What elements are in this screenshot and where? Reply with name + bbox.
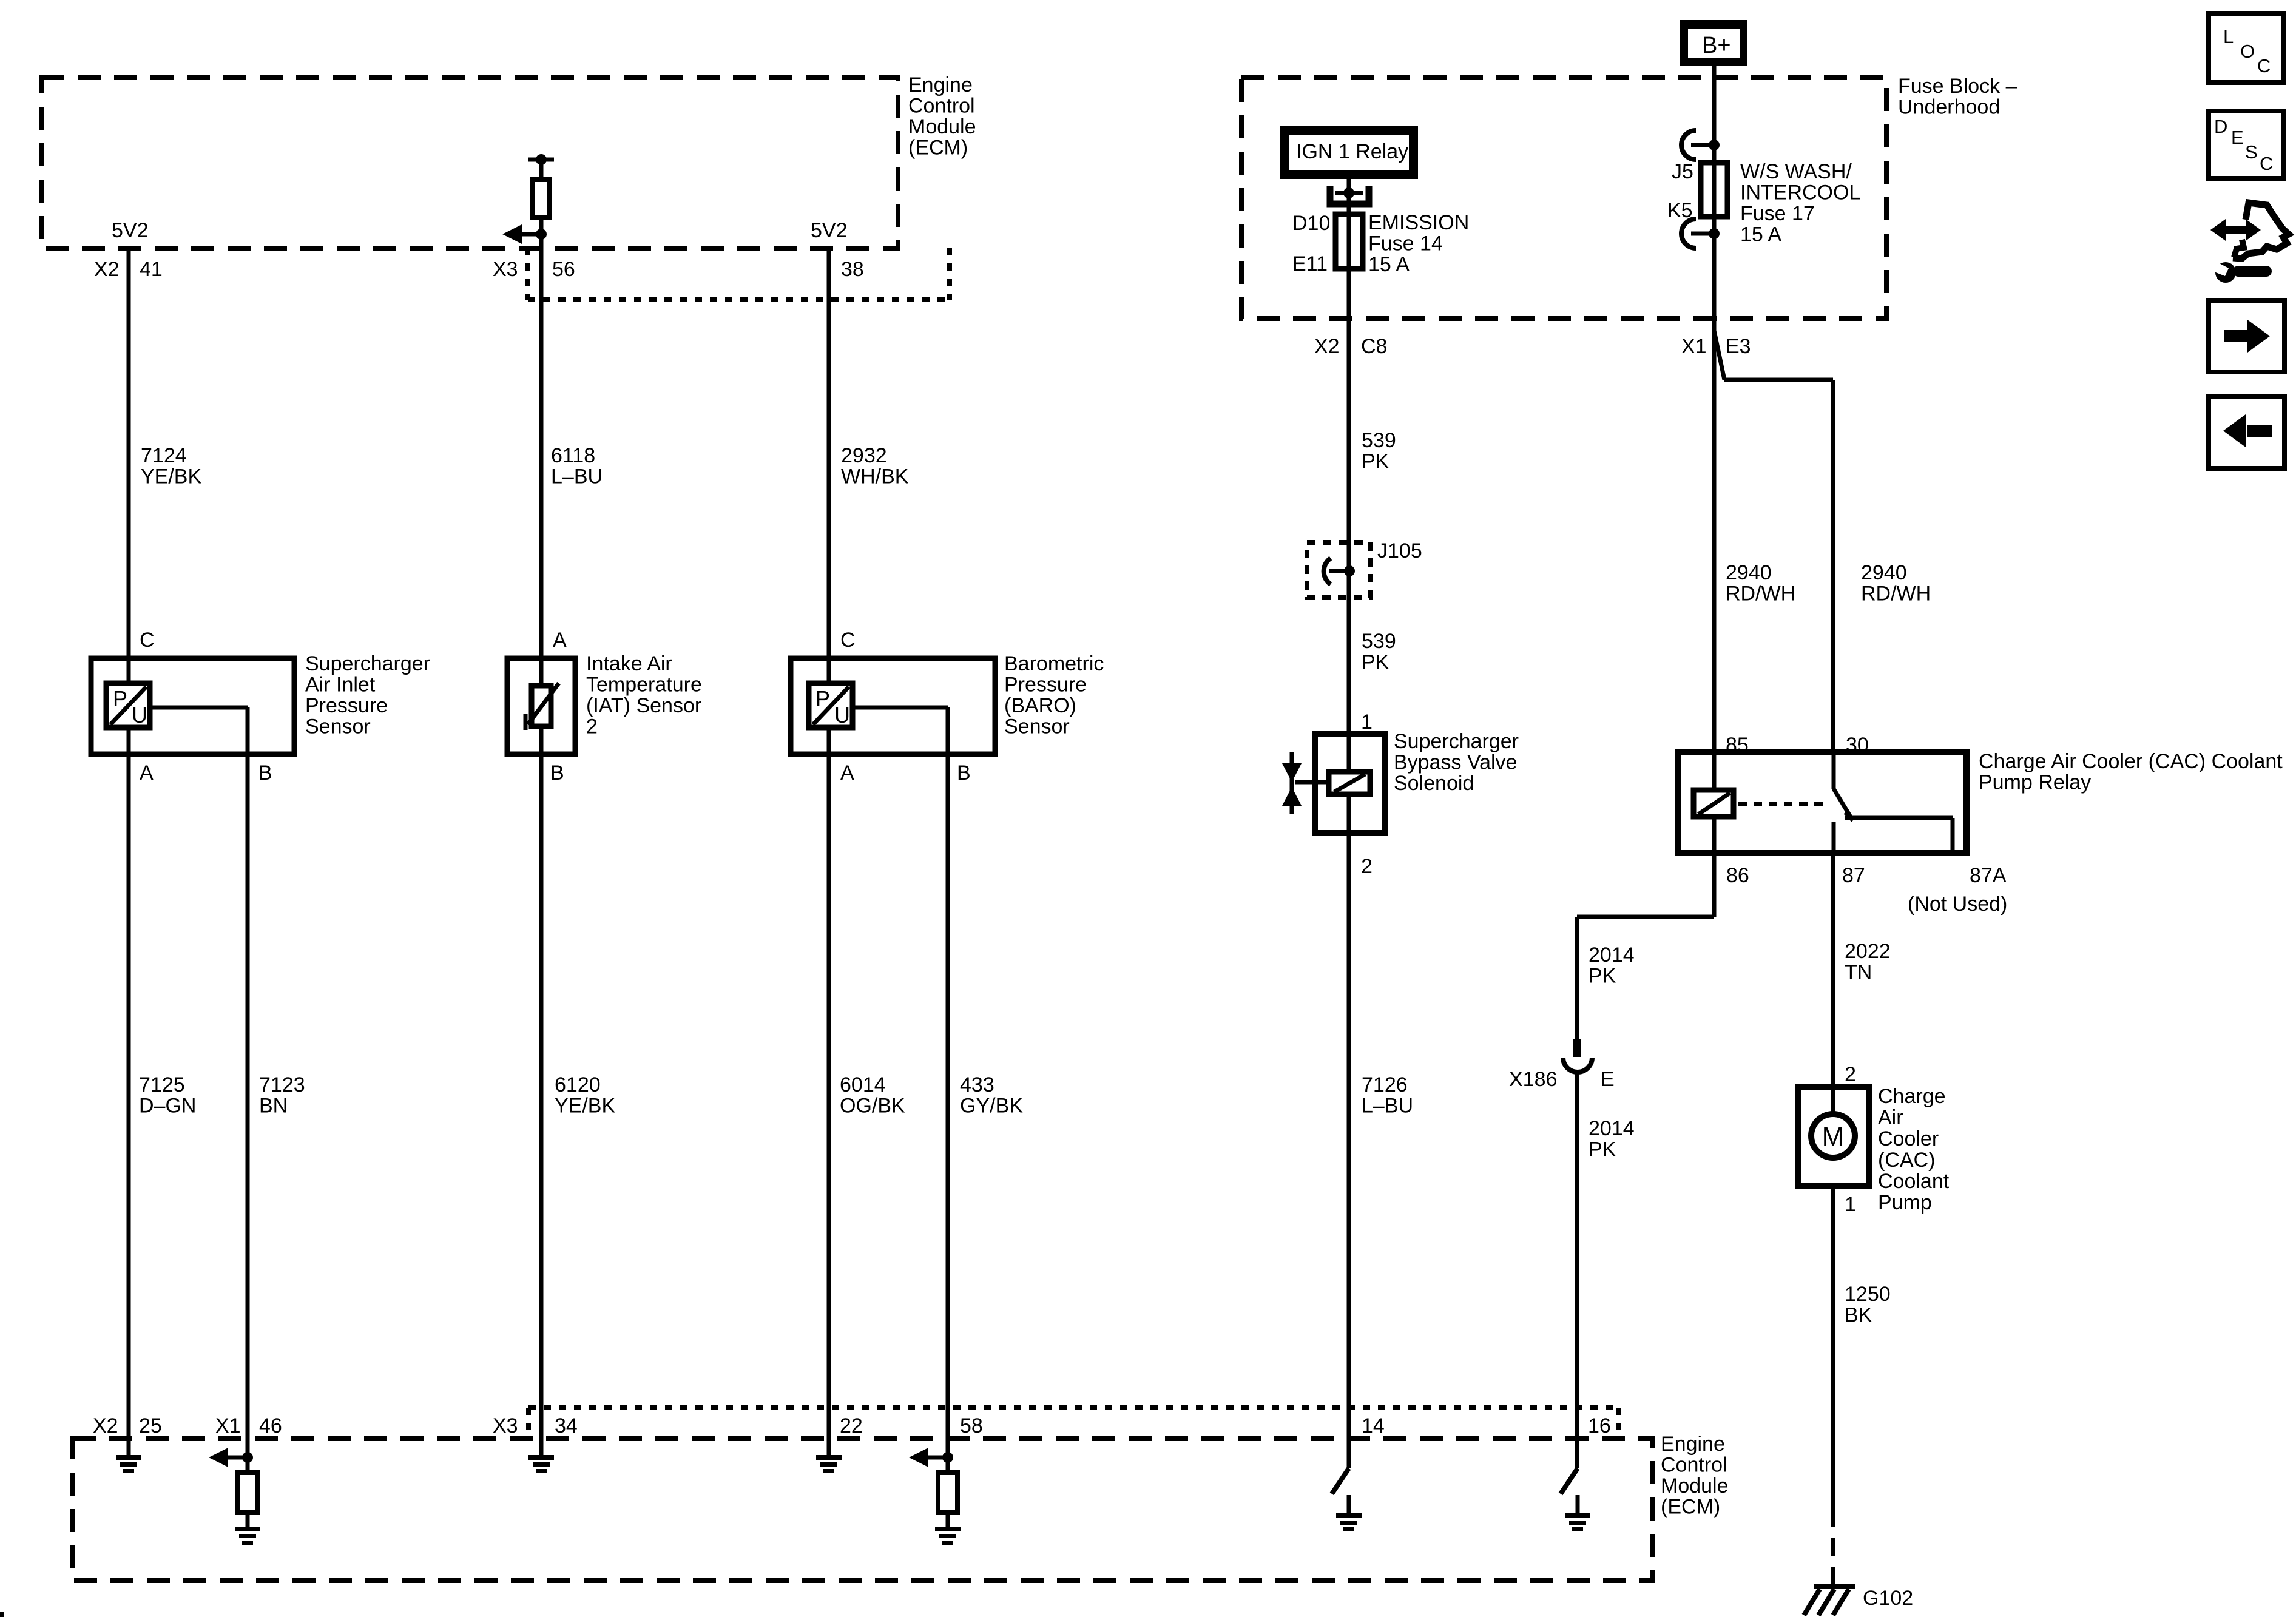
svg-text:C: C [2260, 153, 2273, 174]
motor: Charge Air Cooler (CAC) Coolant Pump box [1798, 1087, 1869, 1186]
connector X186 inline [1573, 1039, 1581, 1057]
svg-text:25: 25 [139, 1414, 162, 1437]
arrow and junction at pin 58 [942, 1452, 953, 1463]
ground: ECM internal at pin 34 [528, 1455, 554, 1460]
switch: ECM low-side driver at pin 16 [1561, 1468, 1578, 1494]
relay: Charge Air Cooler (CAC) Coolant Pump Relay box [1678, 752, 1967, 853]
wire 7125 D-GN: sensor pin A to ECM X2-25 [127, 727, 131, 1455]
svg-text:D10: D10 [1292, 212, 1330, 235]
wire: BARO internal to pin B [853, 706, 948, 710]
svg-text:U: U [834, 703, 850, 727]
switch: ECM low-side driver at pin 14 [1332, 1468, 1349, 1494]
page artifact dot (bottom-left) [0, 1612, 4, 1617]
svg-text:Pump: Pump [1878, 1191, 1932, 1214]
svg-text:D–GN: D–GN [139, 1095, 196, 1118]
svg-text:D: D [2214, 116, 2227, 137]
ground: ECM internal at pin 14 [1347, 1495, 1351, 1513]
connector X3 dotted box (bottom) [528, 1405, 1618, 1410]
svg-text:L–BU: L–BU [1362, 1095, 1413, 1118]
svg-text:6120: 6120 [555, 1073, 601, 1096]
svg-text:O: O [2240, 41, 2255, 62]
svg-text:X1: X1 [1681, 335, 1707, 358]
svg-text:Supercharger: Supercharger [305, 652, 430, 675]
svg-text:Temperature: Temperature [586, 673, 702, 697]
svg-text:85: 85 [1726, 734, 1749, 757]
svg-text:X1: X1 [215, 1414, 241, 1437]
svg-text:Cooler: Cooler [1878, 1127, 1939, 1150]
ground G102 chassis symbol [1814, 1584, 1855, 1589]
wire 6118 L-BU: ECM X3-56 to IAT pin A [539, 248, 544, 686]
svg-text:YE/BK: YE/BK [555, 1095, 615, 1118]
svg-text:Fuse 14: Fuse 14 [1368, 232, 1443, 255]
wire: sensor 1 internal to pin B [150, 706, 248, 710]
svg-text:433: 433 [960, 1073, 994, 1096]
wire 2932 WH/BK: ECM 38 to BARO pin C [827, 248, 831, 683]
svg-text:C: C [2257, 55, 2271, 76]
svg-text:B: B [957, 761, 971, 785]
wire 2940 RD/WH branch to relay pin 30 [1714, 331, 1724, 380]
svg-text:U: U [132, 703, 147, 727]
wire 7124 YE/BK: ECM X2-41 to sensor pin C [127, 248, 131, 683]
svg-text:2014: 2014 [1589, 944, 1635, 967]
svg-text:(CAC): (CAC) [1878, 1149, 1935, 1172]
svg-text:15 A: 15 A [1740, 223, 1781, 246]
ground: ECM internal at pin 16 [1576, 1495, 1580, 1513]
svg-text:1: 1 [1361, 711, 1373, 734]
svg-text:RD/WH: RD/WH [1726, 582, 1795, 606]
svg-text:X2: X2 [1314, 335, 1340, 358]
svg-text:Charge Air Cooler (CAC) Coolan: Charge Air Cooler (CAC) Coolant [1979, 750, 2283, 773]
svg-text:Barometric: Barometric [1004, 652, 1104, 675]
svg-text:X3: X3 [493, 258, 518, 281]
fuse terminal J5 (fuse 17 top) [1709, 140, 1720, 150]
svg-text:86: 86 [1726, 864, 1749, 887]
svg-text:K5: K5 [1667, 199, 1693, 222]
svg-text:W/S WASH/: W/S WASH/ [1740, 160, 1852, 183]
svg-text:J105: J105 [1377, 539, 1422, 562]
svg-text:P: P [113, 686, 127, 711]
svg-text:22: 22 [840, 1414, 863, 1437]
ground: ECM internal at pin 58 [935, 1527, 961, 1531]
svg-text:Bypass Valve: Bypass Valve [1394, 751, 1517, 774]
svg-text:Module: Module [1661, 1474, 1729, 1497]
svg-text:(Not Used): (Not Used) [1908, 893, 2007, 916]
relay coil-to-armature dashed link [1738, 802, 1826, 806]
svg-text:P: P [815, 686, 830, 711]
svg-text:56: 56 [552, 258, 575, 281]
svg-text:INTERCOOL: INTERCOOL [1740, 181, 1860, 204]
fuse terminal K5 (fuse 17 bottom) [1709, 228, 1720, 239]
fuse holder terminal (fuse 14 top) [1343, 187, 1354, 198]
svg-text:A: A [840, 761, 854, 785]
resistor: ECM internal pull-up for IAT [528, 158, 554, 162]
svg-text:(IAT) Sensor: (IAT) Sensor [586, 694, 701, 717]
svg-text:2014: 2014 [1589, 1117, 1635, 1140]
thermistor symbol (IAT) [532, 686, 551, 726]
svg-text:38: 38 [841, 258, 864, 281]
svg-text:GY/BK: GY/BK [960, 1095, 1023, 1118]
svg-text:7126: 7126 [1362, 1073, 1408, 1096]
svg-text:B+: B+ [1702, 33, 1731, 58]
svg-text:C8: C8 [1361, 335, 1387, 358]
resistor: ECM internal at pin 58 [938, 1473, 957, 1513]
svg-text:X2: X2 [93, 1414, 118, 1437]
svg-text:2: 2 [1845, 1063, 1856, 1086]
svg-text:E: E [1601, 1068, 1615, 1091]
Fuse Block - Underhood dashed box [1241, 78, 1886, 319]
relay coil symbol [1693, 790, 1734, 817]
relay IGN 1 Relay box [1280, 126, 1418, 179]
svg-text:Module: Module [908, 115, 976, 138]
wire 2014 PK: relay 86 to X186 [1712, 853, 1717, 917]
svg-text:(ECM): (ECM) [1661, 1496, 1720, 1519]
wire B+ to W/S WASH fuse and X1-E3 [1712, 66, 1717, 752]
svg-text:46: 46 [259, 1414, 282, 1437]
svg-text:L: L [2223, 26, 2234, 47]
wire 6014 OG/BK: BARO pin A to ECM 22 [827, 727, 831, 1455]
P/U pressure transducer symbol (BARO) [809, 683, 853, 727]
svg-text:Intake Air: Intake Air [586, 652, 672, 675]
svg-text:2940: 2940 [1861, 561, 1907, 584]
valve symbol (solenoid) [1290, 752, 1294, 814]
svg-text:7123: 7123 [259, 1073, 305, 1096]
svg-text:B: B [550, 761, 564, 785]
svg-text:BN: BN [259, 1095, 288, 1118]
ground: ECM internal at pin 46 [235, 1527, 260, 1531]
svg-text:30: 30 [1846, 734, 1869, 757]
svg-text:34: 34 [555, 1414, 578, 1437]
sensor: Intake Air Temperature (IAT) Sensor 2 box [507, 658, 575, 754]
svg-text:PK: PK [1589, 1138, 1616, 1161]
fuse W/S WASH/INTERCOOL Fuse 17 15 A [1701, 163, 1727, 217]
svg-text:S: S [2245, 141, 2258, 163]
svg-text:BK: BK [1845, 1304, 1872, 1327]
svg-text:IGN 1 Relay: IGN 1 Relay [1296, 140, 1408, 163]
svg-text:E: E [2231, 127, 2244, 148]
svg-text:Control: Control [1661, 1454, 1727, 1477]
svg-text:YE/BK: YE/BK [141, 465, 201, 488]
power feed B+ box [1680, 20, 1747, 66]
svg-text:1250: 1250 [1845, 1283, 1891, 1306]
svg-text:(ECM): (ECM) [908, 137, 968, 160]
svg-text:Pressure: Pressure [1004, 673, 1087, 697]
svg-text:Charge: Charge [1878, 1085, 1946, 1108]
svg-text:87: 87 [1842, 864, 1865, 887]
svg-text:E11: E11 [1292, 252, 1328, 275]
wire 1250 BK: pump pin 1 to G102 [1831, 1186, 1835, 1509]
solenoid: Supercharger Bypass Valve Solenoid box [1315, 734, 1385, 833]
svg-text:41: 41 [140, 258, 163, 281]
splice J105 dashed box [1307, 542, 1370, 598]
svg-text:6118: 6118 [551, 444, 595, 467]
svg-text:PK: PK [1589, 965, 1616, 988]
svg-text:58: 58 [960, 1414, 983, 1437]
P/U pressure transducer symbol (sensor 1) [106, 683, 150, 727]
connector X3 dotted box (top) [525, 248, 530, 300]
svg-text:J5: J5 [1672, 160, 1693, 183]
svg-text:Fuse Block –: Fuse Block – [1898, 75, 2017, 98]
svg-text:M: M [1822, 1122, 1845, 1152]
svg-text:RD/WH: RD/WH [1861, 582, 1931, 606]
svg-text:Supercharger: Supercharger [1394, 730, 1519, 753]
svg-text:Air: Air [1878, 1106, 1903, 1129]
svg-text:EMISSION: EMISSION [1368, 211, 1469, 234]
svg-text:Coolant: Coolant [1878, 1170, 1950, 1193]
svg-text:L–BU: L–BU [551, 465, 603, 488]
svg-text:Air Inlet: Air Inlet [305, 673, 376, 697]
svg-text:E3: E3 [1726, 335, 1751, 358]
wire 6120 YE/BK: IAT pin B to ECM X3-34 [539, 726, 544, 1455]
svg-text:16: 16 [1588, 1414, 1611, 1437]
svg-text:6014: 6014 [840, 1073, 886, 1096]
svg-text:X3: X3 [493, 1414, 518, 1437]
icon: DESC box [2209, 111, 2283, 178]
ECM module box (top, dashed) [41, 78, 898, 248]
svg-text:WH/BK: WH/BK [841, 465, 909, 488]
svg-text:OG/BK: OG/BK [840, 1095, 905, 1118]
svg-text:C: C [840, 629, 856, 652]
wire 2022 TN: relay 87 to pump pin 2 [1831, 853, 1835, 1115]
solenoid coil symbol [1329, 772, 1370, 794]
svg-text:7124: 7124 [141, 444, 187, 467]
icon: forward arrow box [2209, 300, 2284, 372]
svg-text:Solenoid: Solenoid [1394, 772, 1474, 795]
svg-text:87A: 87A [1970, 864, 2007, 887]
wire 433 GY/BK: BARO pin B to ECM 58 [946, 754, 950, 1473]
svg-text:Pump Relay: Pump Relay [1979, 771, 2091, 794]
svg-text:2022: 2022 [1845, 940, 1891, 963]
svg-text:2: 2 [1361, 855, 1373, 878]
svg-text:Pressure: Pressure [305, 694, 388, 717]
wire 2014 PK: X186 to ECM 16 [1575, 1072, 1579, 1468]
resistor: ECM internal at pin 46 [238, 1473, 257, 1513]
icon: LOC box [2209, 13, 2283, 83]
icon: wrench with double arrow [2215, 226, 2252, 234]
svg-text:Engine: Engine [1661, 1433, 1725, 1456]
icon: back arrow box [2209, 397, 2284, 468]
splice J105 terminal [1344, 565, 1355, 576]
svg-text:TN: TN [1845, 961, 1872, 984]
svg-text:7125: 7125 [139, 1073, 185, 1096]
sensor: Barometric Pressure (BARO) Sensor box [791, 658, 995, 754]
svg-text:2932: 2932 [841, 444, 887, 467]
fuse EMISSION Fuse 14 15 A [1335, 214, 1363, 269]
sensor: Supercharger Air Inlet Pressure Sensor box [91, 658, 294, 754]
svg-text:X186: X186 [1509, 1068, 1557, 1091]
svg-text:14: 14 [1362, 1414, 1385, 1437]
relay armature switch 30 to 87 [1832, 752, 1836, 789]
svg-text:15 A: 15 A [1368, 253, 1410, 276]
svg-text:2: 2 [586, 715, 598, 738]
svg-text:A: A [140, 761, 154, 785]
svg-text:539: 539 [1362, 429, 1396, 452]
svg-text:5V2: 5V2 [811, 219, 848, 242]
wire 539 PK: IGN 1 Relay to solenoid pin 1 [1347, 179, 1351, 772]
svg-text:A: A [553, 629, 567, 652]
svg-text:PK: PK [1362, 450, 1389, 473]
arrow: signal into ECM at pin 56 [536, 229, 547, 240]
svg-text:B: B [258, 761, 272, 785]
svg-text:PK: PK [1362, 651, 1389, 674]
svg-text:Engine: Engine [908, 73, 973, 96]
arrow and junction at pin 46 [242, 1452, 253, 1463]
svg-text:Fuse 17: Fuse 17 [1740, 202, 1815, 225]
svg-text:Control: Control [908, 95, 975, 118]
svg-text:(BARO): (BARO) [1004, 694, 1076, 717]
svg-text:Sensor: Sensor [305, 715, 371, 738]
ground: ECM internal at pin 25 [116, 1455, 141, 1460]
wire 7123 BN: sensor pin B to ECM X1-46 [246, 754, 250, 1473]
svg-text:G102: G102 [1863, 1587, 1913, 1610]
motor M symbol [1811, 1114, 1855, 1158]
svg-text:C: C [140, 629, 155, 652]
svg-text:539: 539 [1362, 630, 1396, 653]
svg-text:X2: X2 [94, 258, 120, 281]
wire: relay pin 85 through coil to pin 86 [1712, 752, 1717, 791]
ground: ECM internal at pin 22 [816, 1455, 842, 1460]
ECM module box (bottom, dashed) [73, 1439, 1652, 1581]
svg-text:Sensor: Sensor [1004, 715, 1070, 738]
svg-text:1: 1 [1845, 1193, 1856, 1216]
svg-text:5V2: 5V2 [112, 219, 149, 242]
svg-text:2940: 2940 [1726, 561, 1772, 584]
wire 7126 L-BU: solenoid pin 2 to ECM 14 [1347, 794, 1351, 1468]
svg-text:Underhood: Underhood [1898, 96, 2000, 119]
